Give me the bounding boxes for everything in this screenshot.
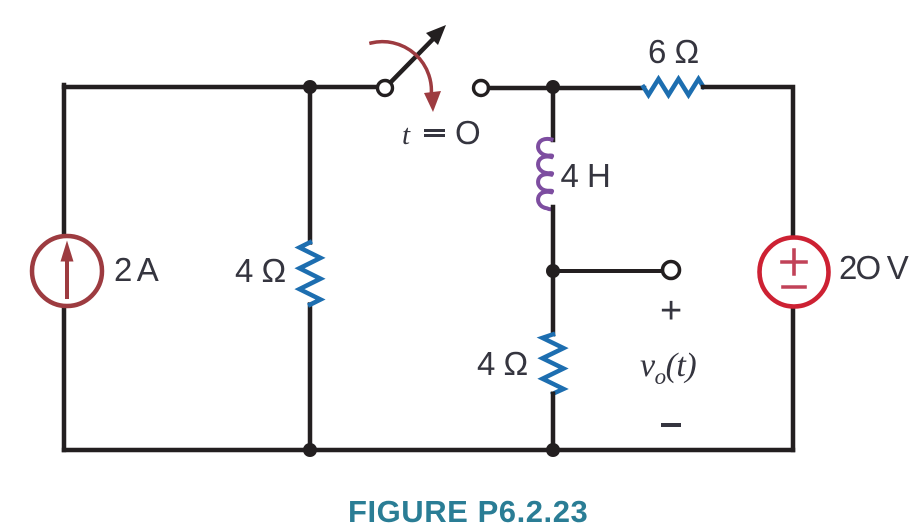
voltage source plus sign	[782, 250, 806, 274]
switch arm arrowhead	[426, 25, 446, 45]
resistor R 6ohm	[644, 79, 704, 95]
wire from switch to 6-ohm resistor	[489, 86, 644, 91]
switch motion arrow (red arc)	[371, 42, 431, 97]
label 6 ohm	[648, 35, 699, 68]
junction node output tap	[546, 264, 560, 278]
wire left rail lower	[62, 308, 67, 450]
wire 6-ohm to top-right corner	[703, 87, 793, 237]
switch arm	[390, 36, 436, 83]
junction node bottom middle-left	[303, 443, 317, 457]
wire top-left rail	[64, 85, 377, 90]
inductor L 4H	[538, 139, 552, 209]
wire output tap	[553, 269, 661, 273]
switch pole terminal (left open circle)	[378, 81, 393, 96]
label t = 0	[402, 121, 410, 150]
current source arrow	[65, 252, 69, 297]
switch throw terminal (right open circle)	[474, 81, 489, 96]
resistor R 4ohm bottom	[543, 334, 564, 393]
label 20 V	[839, 251, 907, 284]
wire inductor to bottom resistor	[551, 207, 556, 334]
voltage source V1 20V circle	[760, 238, 829, 307]
output terminal (open circle)	[663, 262, 680, 279]
current source I1 2A circle	[32, 236, 102, 306]
resistor R 4ohm left	[300, 242, 321, 304]
caption FIGURE P6.2.23	[348, 496, 588, 527]
label 4 ohm bottom	[477, 347, 528, 380]
switch motion arrowhead	[424, 91, 441, 112]
wire right rail lower	[791, 307, 796, 450]
junction node top inductor	[546, 80, 560, 94]
junction node bottom inductor branch	[546, 443, 560, 457]
wire middle-left branch upper	[308, 87, 313, 243]
wire middle-left branch lower	[308, 305, 313, 451]
label 2 A	[114, 253, 157, 286]
label 4 ohm left	[235, 254, 286, 287]
wire bottom rail	[64, 448, 793, 453]
junction node top-left middle	[303, 80, 317, 94]
voltage source minus sign	[783, 285, 805, 289]
wire bottom resistor to bottom rail	[551, 394, 556, 450]
label plus polarity	[660, 292, 682, 330]
label minus polarity	[661, 423, 681, 427]
label 4 H	[561, 159, 611, 192]
wire inductor branch top	[551, 87, 556, 140]
wire left rail upper	[62, 85, 67, 235]
label vo(t)	[640, 349, 696, 388]
